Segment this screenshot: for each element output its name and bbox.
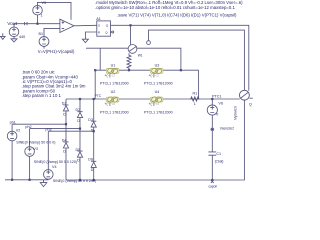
diode D6 [93, 131, 95, 161]
svg-text:Vout: Vout [7, 21, 17, 27]
bus2 wire [66, 98, 240, 100]
bus1 wire [95, 69, 198, 71]
capacitor C1 [208, 152, 216, 155]
wire V6 branch [211, 99, 213, 105]
junction bus2 col2 [79, 98, 81, 100]
svg-text:0: 0 [216, 112, 218, 116]
svg-text:+(·||· □: +(·||· □ [105, 102, 115, 106]
bus2 stub right of switch [249, 97, 252, 99]
svg-text:D1: D1 [62, 101, 67, 105]
net flag Vsense2 [210, 128, 214, 131]
bottom bus [66, 179, 245, 181]
svg-text:B1: B1 [39, 32, 44, 36]
svg-text:+(·||· □: +(·||· □ [149, 73, 159, 77]
svg-text:D: D [91, 128, 94, 132]
svg-text:+(·||· □: +(·||· □ [105, 73, 115, 77]
op-amp U1 comparator [60, 19, 74, 32]
svg-text:SINE(0 {Vamp} 50 0 0 240): SINE(0 {Vamp} 50 0 0 240) [53, 179, 96, 183]
wire opamp out to A1 [74, 24, 97, 27]
component U1 [105, 68, 119, 77]
behavioral source B1 [44, 28, 60, 36]
Qbar stub [111, 31, 112, 33]
svg-text:.step param n 1 10 1: .step param n 1 10 1 [22, 93, 62, 98]
wire ph1 [12, 123, 66, 125]
component U3 [149, 68, 163, 77]
svg-text:PTCL1 17B12000: PTCL1 17B12000 [144, 82, 173, 86]
svg-text:U2: U2 [111, 90, 116, 94]
svg-text:D: D [91, 168, 94, 172]
junction bus1 left [94, 69, 96, 71]
svg-text:PTCL1 17B12000: PTCL1 17B12000 [144, 110, 173, 114]
junction bus2 col3 [93, 98, 95, 100]
svg-text:D6: D6 [88, 158, 93, 162]
svg-text:PTC: PTC [95, 94, 102, 98]
wire V5 top to opamp power [38, 2, 72, 19]
svg-text:D: D [63, 149, 66, 153]
svg-text:U1: U1 [111, 64, 116, 68]
diode D1 [65, 99, 67, 105]
flip-flop A1 [97, 21, 111, 36]
svg-text:PTCL1 17B12000: PTCL1 17B12000 [100, 110, 129, 114]
diode D4 [65, 124, 67, 142]
svg-text:V=V(PH1)-V(capsil): V=V(PH1)-V(capsil) [38, 49, 75, 54]
voltage source V5 [33, 5, 43, 15]
svg-text:440: 440 [19, 35, 25, 39]
ground under V1 [11, 37, 17, 42]
resistor R2 vertical zigzag [127, 53, 131, 70]
svg-text:D4: D4 [62, 138, 67, 142]
voltage source V3 [29, 129, 31, 147]
svg-text:V4: V4 [52, 165, 57, 169]
neutral rail [5, 179, 48, 181]
svg-text:1: 1 [41, 14, 43, 18]
svg-text:ph2: ph2 [25, 125, 31, 129]
wire ph2 [30, 128, 80, 130]
svg-text:D3: D3 [88, 118, 93, 122]
junction bus2 V6 [211, 98, 213, 100]
diode D5 [79, 129, 81, 152]
ground flag left edge [1, 33, 6, 39]
svg-text:MySwitch: MySwitch [234, 106, 238, 120]
wire Q rail1 [111, 25, 249, 91]
ground flag [40, 180, 47, 187]
svg-text:V2: V2 [16, 128, 21, 132]
ground [82, 39, 88, 42]
wire W1 row [86, 48, 181, 70]
wire A1 R to ground [85, 32, 96, 39]
switch S1 [240, 90, 250, 100]
svg-text:V5: V5 [42, 1, 47, 5]
junction bus1 x180.9 [180, 69, 182, 71]
wire branch to bus1 [99, 48, 101, 70]
svg-text:ph3: ph3 [45, 128, 51, 132]
wire rail2 [149, 30, 245, 90]
svg-text:PTCL1 17B12000: PTCL1 17B12000 [100, 82, 129, 86]
resistor R1 horizontal [190, 97, 200, 101]
svg-text:R: R [98, 30, 101, 34]
svg-text:A1: A1 [96, 17, 101, 21]
wire col3 riser [94, 70, 96, 99]
port marker [25, 22, 27, 25]
svg-text:+(·||· □: +(·||· □ [149, 102, 159, 106]
svg-text:U4: U4 [155, 90, 160, 94]
svg-text:1: 1 [194, 102, 196, 106]
svg-text:R1: R1 [193, 92, 198, 96]
svg-text:SINE(0 {Vamp} 50 0 0 0): SINE(0 {Vamp} 50 0 0 0) [16, 140, 55, 144]
wire V5 bottom [37, 15, 39, 24]
component U2 [105, 97, 119, 106]
svg-text:D: D [77, 158, 80, 162]
wire ph3 [48, 130, 93, 132]
svg-text:V3: V3 [33, 147, 38, 151]
svg-text:Vsens2e2: Vsens2e2 [220, 127, 234, 131]
svg-text:D2: D2 [76, 108, 81, 112]
svg-text:ph1: ph1 [10, 120, 16, 124]
switch W1 [128, 45, 137, 54]
node Vout wire [14, 23, 60, 25]
component U4 [149, 97, 163, 106]
svg-text:D5: D5 [76, 148, 81, 152]
junction V5-Vout [36, 23, 38, 25]
svg-text:.save V(71) V(74) V(71,0) I(C7: .save V(71) V(74) V(71,0) I(C74) I(D6) I… [117, 12, 237, 17]
svg-text:capoil: capoil [209, 185, 218, 189]
diode D2 [79, 99, 81, 112]
voltage source V4 [47, 131, 49, 169]
svg-text:D: D [63, 112, 66, 116]
junction [129, 24, 131, 26]
svg-text:Q: Q [106, 24, 109, 28]
svg-text:D: D [77, 119, 80, 123]
svg-text:Q: Q [249, 102, 252, 106]
junction resistor bus1 [128, 69, 130, 71]
svg-text:SINE(0 {Vamp} 50 0 0 120): SINE(0 {Vamp} 50 0 0 120) [34, 160, 77, 164]
svg-text:{Cbat}: {Cbat} [215, 160, 224, 164]
svg-text:PTC1: PTC1 [212, 95, 221, 99]
svg-text:S: S [98, 24, 100, 28]
net flag capoil [211, 180, 214, 183]
wire W1 control drop [130, 25, 132, 44]
diode D3 [93, 99, 95, 122]
svg-text:C1: C1 [216, 152, 221, 156]
voltage source V1 [13, 24, 15, 27]
svg-text:.options gmin=1e-10 abstol=1e-: .options gmin=1e-10 abstol=1e-10 reltol=… [95, 5, 235, 10]
voltage source V2 [11, 124, 13, 131]
svg-text:Q: Q [105, 30, 108, 34]
voltage source V6 [207, 105, 217, 115]
svg-text:U3: U3 [155, 64, 160, 68]
svg-text:V6: V6 [218, 102, 223, 106]
node circle under rail2 [147, 41, 151, 45]
svg-text:W1: W1 [138, 54, 143, 58]
wire bus1 right drop to R1 [198, 70, 200, 98]
